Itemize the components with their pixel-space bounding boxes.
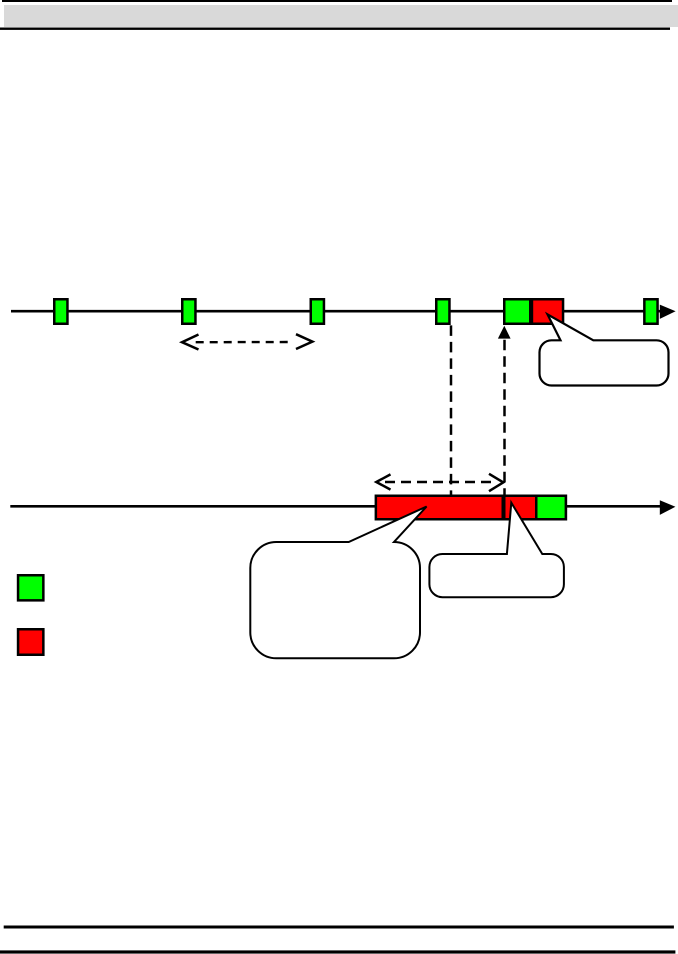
green tick 3 <box>311 299 324 324</box>
callout bubble 2 (large, points to red part of block 2) <box>250 507 426 659</box>
dashed double arrow 1 left head <box>182 335 199 350</box>
green tick 2 <box>182 299 195 324</box>
timeline 2 arrowhead <box>660 500 676 515</box>
block 1 red part (green+red slot block on timeline 1) <box>504 299 563 324</box>
dashed double arrow 1 line <box>196 341 291 344</box>
green tick 1 <box>54 299 67 324</box>
dashed double arrow 1 right head <box>296 334 312 349</box>
header top rule <box>2 0 672 2</box>
callout bubble 3 (small, points to divider of block 2) <box>429 503 564 598</box>
timeline 1 arrowhead <box>660 305 676 319</box>
legend green square <box>18 575 43 600</box>
header grey bar <box>4 5 678 27</box>
callout bubble 1 (top right, points to red part of block 1) <box>540 314 669 385</box>
dashed double arrow 2 left head <box>376 474 390 489</box>
dashed double arrow 2 line <box>385 481 496 483</box>
timeline 2 line <box>10 505 662 508</box>
timeline 1 line <box>11 310 662 313</box>
dashed double arrow 2 right head <box>489 474 503 491</box>
block 2 divider <box>502 495 506 521</box>
block 1 green part <box>504 299 530 324</box>
footer rule 1 <box>4 926 674 929</box>
vertical dashed line 1 <box>450 325 453 494</box>
up arrowhead of vertical dashed line 2 <box>498 326 511 339</box>
block 2 green part <box>536 496 566 520</box>
vertical dashed line 2 <box>503 340 506 495</box>
block 2 red part (long slot block on timeline 2) <box>376 496 566 520</box>
green tick 4 <box>436 299 449 324</box>
block 1 divider <box>530 298 533 325</box>
header bottom rule <box>0 28 670 30</box>
green tick 5 <box>644 299 657 324</box>
legend red square <box>18 629 43 655</box>
footer rule 2 <box>0 950 675 953</box>
